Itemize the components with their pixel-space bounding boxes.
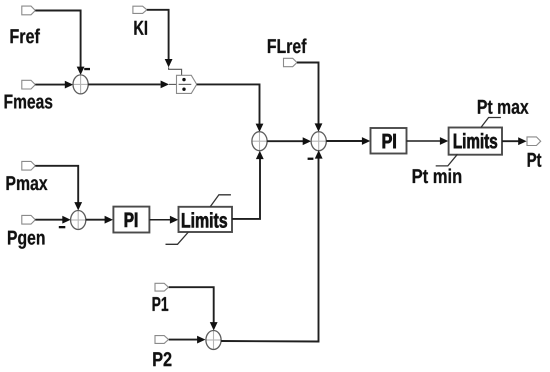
sum junction S2 (71, 211, 86, 230)
minus sign at S4 (308, 158, 314, 160)
wire S5 to sum S4 (221, 150, 323, 341)
sum junction S5 (206, 331, 221, 350)
input port P1 (155, 283, 169, 291)
label Pt max (478, 100, 529, 114)
wire Limits U3 to sum S3 (232, 151, 264, 219)
wire S2 to PI block U2 (86, 216, 113, 224)
PI block U4 (371, 128, 407, 154)
input port FLref (284, 58, 298, 66)
wire Pgen to sum S2 (35, 216, 70, 224)
saturation mark upper U3 (210, 195, 231, 207)
wire P2 to sum S5 (169, 336, 206, 344)
wire FLref to sum S4 (297, 63, 322, 132)
wire PI U2 to Limits U3 (150, 216, 179, 224)
label FLref (268, 39, 307, 54)
saturation mark lower U3 (166, 232, 189, 244)
input port P2 (155, 336, 169, 344)
label P1 (153, 297, 169, 311)
sum junction S4 (311, 132, 326, 151)
wire S3 to sum S4 (267, 137, 311, 145)
minus sign at S1 (84, 68, 90, 70)
label Pt min (413, 169, 462, 184)
sum junction S3 (252, 132, 267, 151)
leader line to Pt max (481, 118, 501, 128)
wire PI U4 to Limits U5 (407, 137, 449, 145)
Limits block U5 (449, 128, 502, 155)
input port Fref (22, 6, 36, 15)
wire divide to sum S3 (197, 84, 264, 132)
minus sign at S2 (59, 226, 66, 228)
input port Pgen (22, 215, 36, 224)
input port KI (133, 6, 147, 13)
wire P1 to sum S5 (169, 287, 218, 330)
wire Fref to sum S1 (35, 11, 84, 76)
Limits block U3 (179, 207, 233, 232)
wire KI to divide block (147, 10, 182, 76)
PI block U2 (113, 207, 149, 233)
leader line to Pt min (436, 154, 458, 166)
output port Pt (527, 137, 541, 146)
label Pt (528, 153, 542, 167)
divide block U1 (177, 75, 197, 93)
sum junction S1 (73, 75, 88, 94)
label Fmeas (5, 95, 53, 109)
wire Pmax to sum S2 (35, 166, 82, 211)
label Fref (11, 29, 40, 44)
wire S4 to PI block U4 (326, 137, 370, 145)
label KI (134, 21, 147, 35)
input port Pmax (22, 161, 36, 170)
wire S1 to divide block (88, 81, 176, 89)
wire Limits U5 to output port Pt (502, 137, 527, 145)
label Pmax (7, 176, 48, 190)
wire Fmeas to sum S1 (35, 81, 73, 89)
label P2 (153, 352, 171, 366)
input port Fmeas (22, 80, 36, 89)
label Pgen (8, 231, 45, 249)
